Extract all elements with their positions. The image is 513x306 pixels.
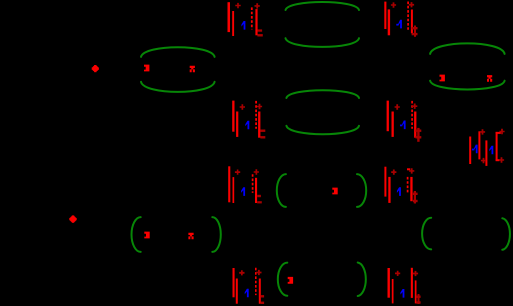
S2 superscript plus a xyxy=(391,2,396,7)
S3 ket bar c xyxy=(258,112,260,138)
green ellipse (top-middle) top arc xyxy=(286,2,360,10)
S6 superscript plus b xyxy=(254,169,259,174)
S1 blue subscript 1 xyxy=(241,21,245,30)
S3 dashed bar xyxy=(255,101,257,129)
S4 double dagger xyxy=(417,128,419,142)
S4 ket bar a xyxy=(387,101,389,132)
S7 ket bar b xyxy=(388,177,390,203)
S2 double dagger xyxy=(414,26,416,37)
S9 double dagger xyxy=(418,294,420,304)
S2 ket bar b xyxy=(388,9,390,35)
S7 double dagger xyxy=(414,191,416,204)
S6 ket bar b xyxy=(233,177,235,203)
S3 ket bar a xyxy=(232,101,234,132)
green ellipse around pair (top-right) bottom arc xyxy=(430,81,505,90)
S5 superscript plus a xyxy=(480,129,485,134)
S8 ket bar b xyxy=(236,279,238,304)
S1 ket bar c xyxy=(255,9,257,35)
S3 ket bar b xyxy=(236,112,238,137)
S8 ket bar a xyxy=(233,268,235,297)
S9 ket bar b xyxy=(392,279,394,303)
S5 superscript plus b xyxy=(499,129,504,134)
red particle dot bottom-left xyxy=(70,216,76,222)
S8 dashed bar xyxy=(255,268,257,295)
S6 bottom crossbars xyxy=(257,195,261,197)
S1 superscript plus b xyxy=(255,3,260,8)
S3 superscript plus a xyxy=(240,104,245,109)
S5 ket bar a xyxy=(469,137,471,165)
green ellipse around pair (top-left) bottom arc xyxy=(141,82,215,92)
S6 dashed bar xyxy=(252,174,254,193)
S7 dashed bar xyxy=(407,177,409,193)
S2 blue subscript -1 xyxy=(396,24,398,26)
red label x2 in top-right ellipse xyxy=(487,75,492,82)
right paren P2 xyxy=(357,174,366,207)
right paren P4 xyxy=(502,218,510,250)
S6 ket bar c xyxy=(255,178,257,203)
S4 blue subscript -1 xyxy=(400,125,402,127)
S5 subscript plus c xyxy=(499,157,504,162)
S9 blue subscript 1 xyxy=(400,289,404,298)
S9 ket bar a xyxy=(388,268,390,298)
S4 superscript plus b xyxy=(412,104,417,109)
S7 superscript plus b xyxy=(409,168,414,173)
right paren P1 xyxy=(212,217,220,252)
S2 superscript plus b xyxy=(409,2,414,7)
green ellipse (middle) top arc xyxy=(286,90,359,98)
S4 ket bar b xyxy=(392,112,394,137)
S9 superscript plus a xyxy=(395,271,400,276)
red label 1 in P3 xyxy=(288,277,293,284)
S1 bottom crossbars xyxy=(257,29,262,31)
S9 ket bar c xyxy=(411,268,413,298)
S3 blue subscript 1 xyxy=(245,121,249,130)
right paren P3 xyxy=(358,263,366,297)
S9 ket bar d xyxy=(415,280,417,303)
S1 dashed bar xyxy=(251,7,253,29)
S8 superscript plus b xyxy=(256,270,261,275)
S4 ket bar c xyxy=(414,112,416,138)
green ellipse (top-middle) bottom arc xyxy=(286,38,360,47)
S8 ket bar c xyxy=(259,279,261,304)
S8 blue subscript 1 xyxy=(245,289,249,298)
green ellipse around pair (top-right) top arc xyxy=(430,43,505,54)
left paren P1 xyxy=(132,217,141,252)
red label x2 in P1 xyxy=(188,233,193,240)
S5 blue -1 xyxy=(472,149,474,151)
S6 blue subscript 1 xyxy=(241,187,245,196)
S5 blue 1 xyxy=(489,146,493,155)
S1 ket bar a xyxy=(228,2,231,32)
red label x2 in top-left ellipse xyxy=(190,66,195,73)
S6 ket bar a xyxy=(228,166,230,202)
S2 dashed bar xyxy=(407,2,409,30)
S3 bottom crossbars xyxy=(260,130,265,132)
S5 bottom plus xyxy=(481,158,486,163)
S7 ket bar a xyxy=(384,167,386,197)
red particle dot top-left xyxy=(92,66,98,72)
S7 blue subscript 1 xyxy=(397,187,401,196)
S8 bottom crossbars xyxy=(261,295,264,297)
S4 superscript plus a xyxy=(395,104,400,109)
left paren P4 xyxy=(422,218,431,250)
S1 ket bar b xyxy=(232,11,234,36)
S8 superscript plus a xyxy=(239,270,244,275)
red label 1 in top-left ellipse xyxy=(144,65,149,72)
S7 superscript plus a xyxy=(391,170,396,175)
S2 ket bar a xyxy=(384,2,386,29)
S9 superscript plus b xyxy=(413,271,418,276)
red label 1 in P2 xyxy=(332,188,337,195)
S2 ket bar c xyxy=(411,10,413,34)
green ellipse around pair (top-left) top arc xyxy=(141,47,215,57)
S7 ket bar c xyxy=(410,177,412,201)
S1 superscript plus a xyxy=(235,3,240,8)
S5 ket bar b xyxy=(478,131,480,159)
S6 superscript plus a xyxy=(235,170,240,175)
left paren P3 xyxy=(278,263,287,296)
S5 ket bar c xyxy=(485,140,487,166)
red label 1 in P1 xyxy=(144,232,149,239)
red label 1 in top-right ellipse xyxy=(440,75,445,82)
green ellipse (middle) bottom arc xyxy=(286,126,359,134)
S7 top tick xyxy=(407,168,410,170)
left paren P2 xyxy=(277,174,286,207)
S5 bracket bar xyxy=(496,132,498,161)
S4 dashed bar xyxy=(411,101,413,129)
S3 superscript plus b xyxy=(257,104,262,109)
